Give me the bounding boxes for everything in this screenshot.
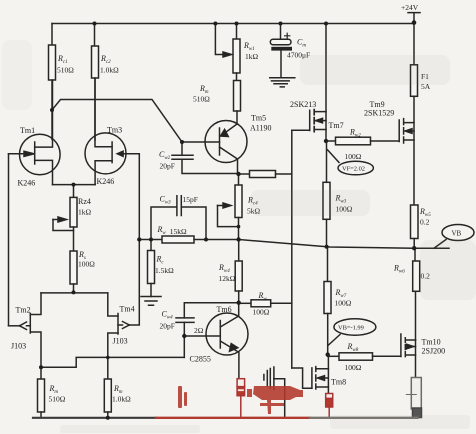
wire Tm3 gate to feedback node xyxy=(138,154,140,240)
transistor Tm5 A1190 xyxy=(205,121,247,175)
resistor Rw 12k xyxy=(235,240,242,303)
svg-text:2SK1529: 2SK1529 xyxy=(364,109,394,118)
transistor Tm8 xyxy=(292,355,329,394)
wire bias spreader line xyxy=(291,130,293,368)
capacitor Cw4 20pF xyxy=(176,303,239,358)
transistor Tm9 2SK1529 xyxy=(399,96,414,205)
resistor Rc 5k trimmer xyxy=(218,174,243,240)
svg-text:Tm5: Tm5 xyxy=(251,114,266,123)
resistor Rw 100 vertical lower xyxy=(324,247,331,355)
svg-text:1kΩ: 1kΩ xyxy=(78,208,92,217)
svg-text:Tm8: Tm8 xyxy=(331,378,346,387)
svg-text:VB=-1.99: VB=-1.99 xyxy=(338,325,364,332)
svg-text:510Ω: 510Ω xyxy=(49,395,66,404)
svg-text:Tm3: Tm3 xyxy=(107,126,122,135)
svg-text:Tm10: Tm10 xyxy=(422,338,441,347)
ground left-facing near Tm8 xyxy=(264,367,285,418)
svg-text:VF=2.02: VF=2.02 xyxy=(342,166,365,173)
svg-text:Rz4: Rz4 xyxy=(78,197,91,206)
transistor Tm3 xyxy=(85,78,139,185)
resistor Rw 0.2 upper xyxy=(411,205,419,248)
svg-text:Tm1: Tm1 xyxy=(20,126,35,135)
resistor Rw1 1k trimmer top xyxy=(215,24,240,74)
resistor Rw 0.2 lower xyxy=(413,248,420,340)
transistor Tm2 xyxy=(9,293,42,379)
resistor Rs 100 xyxy=(70,251,77,293)
transistor Tm10 2SJ200 xyxy=(401,334,416,378)
svg-text:20pF: 20pF xyxy=(160,322,175,331)
resistor output grey xyxy=(406,378,421,418)
svg-text:100Ω: 100Ω xyxy=(335,299,352,308)
node VB callout xyxy=(434,225,474,249)
svg-text:1.5kΩ: 1.5kΩ xyxy=(155,266,174,275)
svg-text:0.2: 0.2 xyxy=(420,218,430,227)
resistor Rw 15k xyxy=(139,236,238,243)
transistor Tm1 xyxy=(9,80,61,185)
svg-text:20pF: 20pF xyxy=(160,162,175,171)
wire first stage to Tm5 base xyxy=(52,100,220,143)
svg-text:2SK213: 2SK213 xyxy=(290,100,316,109)
wire sources to Tm6 base net xyxy=(41,357,184,367)
node VB=-1.99 callout xyxy=(329,319,376,345)
svg-text:A1190: A1190 xyxy=(250,124,271,133)
svg-text:100Ω: 100Ω xyxy=(78,260,95,269)
resistor Rw 100 Tm6 collector xyxy=(239,300,292,307)
resistor Rm 510 mid xyxy=(234,73,241,124)
wire bottom rail xyxy=(33,417,418,419)
svg-text:12kΩ: 12kΩ xyxy=(219,274,236,283)
svg-text:Tm2: Tm2 xyxy=(16,306,31,315)
svg-text:Tm6: Tm6 xyxy=(217,305,232,314)
svg-text:15pF: 15pF xyxy=(183,195,198,204)
red watermark marks xyxy=(178,386,303,414)
resistor R 100 VAS to bias xyxy=(239,171,292,178)
svg-text:1.0kΩ: 1.0kΩ xyxy=(100,66,119,75)
capacitor Cw2 20pF xyxy=(172,142,239,174)
svg-text:J103: J103 xyxy=(113,337,128,346)
svg-text:2Ω: 2Ω xyxy=(194,326,204,335)
resistor Rc1 510 xyxy=(49,24,56,140)
svg-text:J103: J103 xyxy=(11,342,26,351)
resistor Rw 100 vertical mid xyxy=(323,141,330,247)
resistor Rm 510 lower-left xyxy=(38,379,45,418)
resistor Rc 1.5k xyxy=(148,240,155,297)
svg-text:1kΩ: 1kΩ xyxy=(245,52,259,61)
svg-text:100Ω: 100Ω xyxy=(345,152,362,161)
svg-text:100Ω: 100Ω xyxy=(253,308,270,317)
wire output node line xyxy=(239,240,450,249)
fuse F1 5A xyxy=(411,23,418,97)
node +24V terminal xyxy=(408,13,420,23)
capacitor Cm 4700uF xyxy=(270,24,292,78)
resistor red Tm8 source xyxy=(326,394,333,418)
svg-text:C2855: C2855 xyxy=(190,355,211,364)
svg-text:Tm7: Tm7 xyxy=(329,121,344,130)
svg-text:K246: K246 xyxy=(97,177,115,186)
svg-text:+24V: +24V xyxy=(401,3,419,12)
resistor red Tm6 emitter xyxy=(237,379,245,418)
resistor Rz4 1k trimmer xyxy=(53,197,77,251)
svg-text:2SJ200: 2SJ200 xyxy=(422,347,446,356)
resistor Rm2 1.0k lower xyxy=(104,379,111,418)
svg-text:VB: VB xyxy=(452,230,462,238)
wire current-source top xyxy=(41,292,108,294)
transistor Tm7 2SK213 xyxy=(292,24,326,142)
resistor Rc2 1.0k xyxy=(92,24,99,141)
resistor Rw 100 to Tm10 gate xyxy=(328,353,401,360)
svg-text:510Ω: 510Ω xyxy=(57,66,74,75)
wire input rail xyxy=(8,154,10,326)
wire top supply rail xyxy=(52,23,414,25)
capacitor Cw3 15pF xyxy=(151,196,206,240)
resistor Rw 100 Tm7 to Tm9 gate xyxy=(326,137,399,145)
ground below R 1.5k xyxy=(141,297,161,306)
svg-text:K246: K246 xyxy=(18,179,36,188)
transistor Tm6 C2855 xyxy=(184,303,248,379)
ground below Cm xyxy=(270,78,295,87)
transistor Tm4 xyxy=(108,240,140,380)
svg-text:510Ω: 510Ω xyxy=(193,95,210,104)
wire sources join xyxy=(53,185,96,198)
svg-text:Tm4: Tm4 xyxy=(120,305,135,314)
svg-text:100Ω: 100Ω xyxy=(345,363,362,372)
node VF callout xyxy=(328,150,374,175)
svg-text:1.0kΩ: 1.0kΩ xyxy=(112,395,131,404)
